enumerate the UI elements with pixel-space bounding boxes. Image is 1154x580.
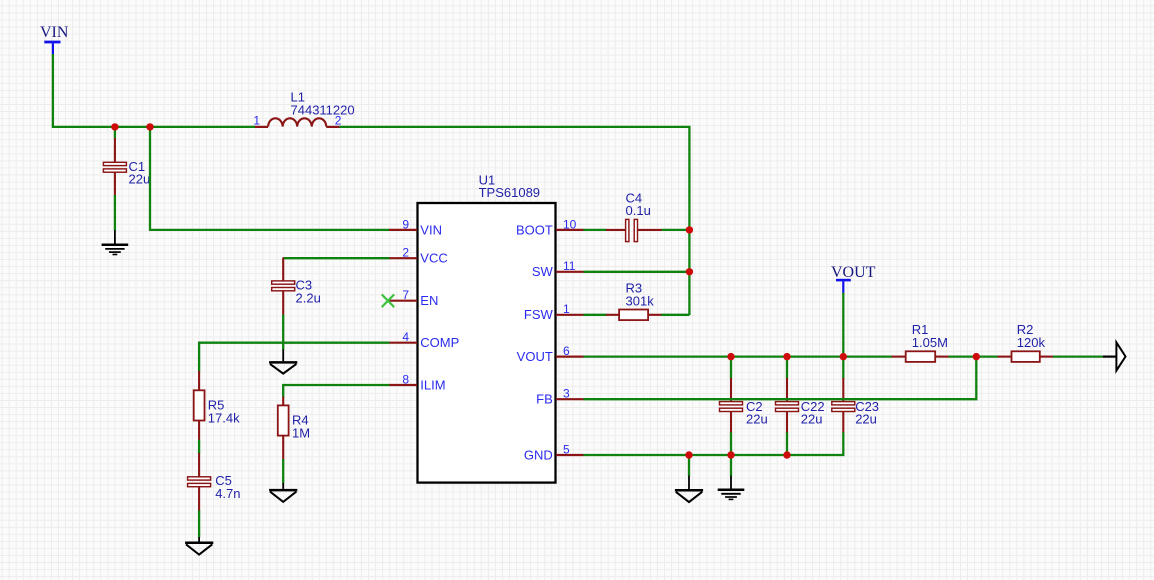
svg-text:2: 2 — [335, 114, 342, 128]
svg-text:ILIM: ILIM — [420, 377, 445, 392]
label R2 120k — [1017, 322, 1046, 350]
capacitor C23 — [832, 378, 855, 433]
svg-text:22u: 22u — [129, 172, 151, 187]
resistor R5 — [194, 371, 205, 441]
svg-text:VOUT: VOUT — [831, 264, 876, 281]
pin 11 SW stub — [556, 271, 584, 273]
wire GND to earth — [730, 455, 732, 476]
pin 4 COMP stub — [389, 342, 417, 344]
ground chevron on GND net — [675, 476, 703, 503]
svg-text:10: 10 — [563, 217, 577, 231]
wire R5 to C5 — [198, 440, 200, 454]
wire VIN top horizontal left of L1 — [52, 126, 256, 128]
svg-text:1: 1 — [563, 302, 570, 316]
capacitor C2 — [720, 378, 743, 433]
junction VIN/U1 — [146, 123, 153, 130]
junction GND chevron — [685, 451, 692, 458]
capacitor C22 — [776, 378, 799, 433]
svg-text:5: 5 — [563, 442, 570, 456]
svg-text:17.4k: 17.4k — [208, 410, 240, 425]
no-connect cross on EN — [382, 294, 395, 307]
capacitor C1 — [103, 138, 126, 196]
svg-text:9: 9 — [402, 217, 409, 231]
wire top horizontal right of L1 to corner — [339, 127, 690, 315]
label L1 744311220 — [291, 90, 355, 118]
ground chevron under C3 — [269, 350, 297, 374]
wire junction2 down to pin9 — [150, 127, 390, 230]
pin 7 EN stub — [389, 300, 418, 302]
label R1 1.05M — [912, 322, 948, 350]
pin 10 BOOT stub — [556, 229, 584, 231]
power port VOUT — [831, 264, 876, 293]
wire GND line — [583, 432, 843, 455]
pin 5 GND stub — [556, 454, 584, 456]
inductor L1 — [255, 118, 339, 127]
svg-text:22u: 22u — [746, 412, 768, 427]
wire R4 to ground — [282, 459, 284, 483]
capacitor C3 — [272, 258, 295, 316]
junction GND C22 — [783, 451, 790, 458]
wire VOUT port down — [842, 293, 844, 357]
wire C1 top stub — [114, 127, 116, 139]
svg-text:22u: 22u — [801, 412, 823, 427]
label U1 TPS61089 — [479, 172, 540, 200]
svg-text:1: 1 — [253, 114, 260, 128]
wire R3 to node — [661, 314, 689, 316]
junction C2 top — [727, 353, 734, 360]
wire C23 top stub — [842, 357, 844, 379]
svg-text:4: 4 — [402, 330, 409, 344]
pin 1 FSW stub — [556, 314, 584, 316]
svg-text:7: 7 — [402, 288, 409, 302]
svg-text:BOOT: BOOT — [516, 222, 553, 237]
svg-text:VIN: VIN — [420, 222, 442, 237]
svg-text:SW: SW — [532, 264, 554, 279]
svg-text:120k: 120k — [1017, 335, 1046, 350]
svg-text:11: 11 — [563, 259, 576, 273]
svg-text:COMP: COMP — [420, 335, 459, 350]
wire ILIM to R4 — [283, 385, 389, 397]
wire C5 to ground — [198, 510, 200, 537]
pin 3 FB stub — [556, 398, 584, 400]
resistor R3 — [606, 310, 662, 321]
pin 9 VIN stub — [389, 229, 417, 231]
pin 8 ILIM stub — [389, 384, 417, 386]
svg-text:VOUT: VOUT — [517, 349, 553, 364]
ground chevron under R4 — [269, 483, 297, 502]
label C4 0.1u — [626, 190, 651, 218]
label R5 17.4k — [208, 398, 240, 426]
junction VIN/C1 — [111, 123, 118, 130]
wire R1 to FB node — [949, 355, 998, 357]
wire C22 bottom — [786, 432, 788, 455]
svg-text:EN: EN — [420, 293, 438, 308]
wire BOOT to C4 — [583, 229, 606, 231]
junction SW node — [686, 268, 693, 275]
label C2 22u — [746, 399, 768, 427]
wire C2 bottom — [730, 432, 732, 455]
capacitor C4 — [606, 219, 662, 241]
label C23 22u — [855, 399, 879, 427]
svg-text:GND: GND — [524, 447, 553, 462]
wire GND to chevron — [688, 455, 690, 476]
svg-text:3: 3 — [563, 387, 570, 401]
wire C2 top stub — [730, 357, 732, 379]
junction VOUT port — [840, 353, 847, 360]
svg-text:1.05M: 1.05M — [912, 335, 948, 350]
label C5 4.7n — [215, 473, 240, 501]
svg-text:FB: FB — [536, 392, 553, 407]
ground chevron under C5 — [185, 537, 213, 555]
wire R2 to arrow — [1053, 355, 1103, 357]
resistor R2 — [998, 351, 1054, 362]
junction GND C2 — [727, 451, 734, 458]
resistor R1 — [892, 351, 949, 362]
label C22 22u — [801, 399, 825, 427]
junction C22 top — [783, 353, 790, 360]
resistor R4 — [278, 397, 289, 460]
wire arrow lead — [1103, 356, 1117, 358]
wire VIN vertical — [52, 54, 54, 127]
svg-text:TPS61089: TPS61089 — [479, 185, 540, 200]
label R4 1M — [292, 413, 310, 441]
ground earth on GND net — [718, 476, 745, 500]
svg-text:1M: 1M — [292, 425, 310, 440]
svg-text:301k: 301k — [626, 293, 655, 308]
label C1 22u — [129, 159, 151, 187]
node VOUT output arrow — [1116, 342, 1125, 370]
pin 6 VOUT stub — [556, 356, 584, 358]
wire COMP to R5 — [199, 343, 389, 372]
junction FB node — [973, 353, 980, 360]
wire VOUT main line — [583, 355, 892, 357]
svg-text:2: 2 — [402, 246, 409, 260]
svg-text:4.7n: 4.7n — [215, 486, 240, 501]
wire FSW to R3 — [583, 314, 606, 316]
capacitor C5 — [188, 453, 211, 511]
svg-text:744311220: 744311220 — [291, 102, 355, 117]
wire SW — [583, 271, 690, 273]
ground earth under C1 — [102, 230, 129, 254]
svg-text:6: 6 — [563, 344, 570, 358]
wire C22 top stub — [786, 357, 788, 379]
svg-text:22u: 22u — [855, 412, 877, 427]
wire FB line — [583, 356, 976, 399]
junction BOOT node — [686, 226, 693, 233]
wire VCC to C3 — [283, 257, 389, 259]
wire C3 to ground — [282, 315, 284, 351]
svg-text:VCC: VCC — [420, 251, 447, 266]
wire C4 to node — [662, 229, 691, 231]
wire C1 to ground — [114, 195, 116, 231]
svg-text:FSW: FSW — [524, 307, 554, 322]
svg-text:2.2u: 2.2u — [296, 290, 321, 305]
svg-text:0.1u: 0.1u — [626, 203, 651, 218]
label R3 301k — [626, 281, 655, 309]
pin 2 VCC stub — [389, 257, 417, 259]
IC U1 TPS61089 body — [418, 203, 556, 483]
power port VIN — [40, 24, 69, 55]
svg-text:8: 8 — [402, 372, 409, 386]
svg-text:VIN: VIN — [40, 24, 69, 41]
label C3 2.2u — [296, 278, 321, 306]
